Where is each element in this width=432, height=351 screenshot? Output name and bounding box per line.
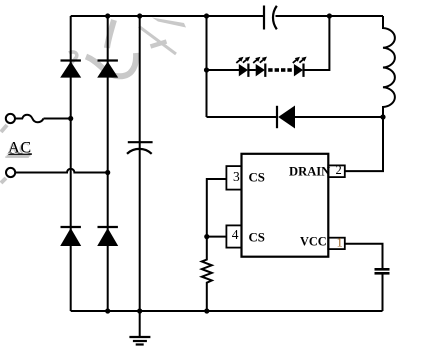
watermark J hook	[86, 53, 136, 76]
pin 3 box	[226, 166, 241, 190]
watermark stroke vertical bar	[107, 20, 114, 48]
diode D4 bridge bottom-right	[97, 227, 118, 246]
diode D3 bridge bottom-left	[60, 227, 81, 246]
wire freewheel diode row	[207, 116, 278, 118]
capacitor C1 curved plate	[273, 6, 277, 30]
diode D5 freewheel	[277, 106, 295, 129]
watermark tick left edge	[1, 125, 7, 132]
node top bus / LED right riser	[327, 13, 332, 18]
capacitor C2 bulk (flat plate)	[128, 141, 153, 143]
wire capacitor column	[139, 16, 141, 311]
wire left column	[70, 16, 72, 311]
node LED row left	[204, 67, 209, 72]
svg-text:VCC: VCC	[300, 235, 327, 249]
ground	[129, 311, 150, 345]
node top bus / column3	[137, 13, 142, 18]
wire top bus	[71, 15, 264, 17]
node CS sense	[204, 234, 209, 239]
node bottom bus / ground	[137, 308, 142, 313]
AC terminal top	[6, 114, 15, 123]
svg-text:2: 2	[336, 163, 342, 177]
AC terminal bottom	[6, 168, 15, 177]
wire LED branch vertical	[206, 16, 208, 117]
wire C3 to bottom bus	[382, 274, 384, 311]
svg-text:AC: AC	[8, 139, 32, 156]
LED LED3	[293, 57, 307, 77]
wire bottom bus	[71, 310, 383, 312]
svg-text:3: 3	[233, 169, 240, 184]
wire CS pin3 to sense node	[207, 179, 226, 237]
wire diode row right	[295, 116, 383, 118]
LED LED1	[236, 57, 250, 77]
capacitor C3 vcc (top plate)	[375, 268, 390, 271]
wire drain riser	[345, 117, 383, 171]
node AC top	[68, 116, 73, 121]
wire LED row	[207, 69, 240, 71]
watermark stroke T-shape diagonal	[139, 18, 186, 55]
LED LED2	[253, 57, 267, 77]
fuse F1 squiggle	[15, 115, 44, 123]
wire AC top lead	[44, 118, 71, 120]
wire LED1-LED2	[248, 69, 256, 71]
svg-text:CS: CS	[249, 230, 265, 244]
resistor R1	[202, 237, 212, 311]
node diode row / inductor	[380, 114, 385, 119]
svg-text:1: 1	[337, 236, 343, 250]
svg-text:CS: CS	[249, 170, 265, 184]
wire top bus right of capacitor	[276, 15, 384, 17]
wire LED3 to right riser	[304, 16, 330, 70]
diode D1 bridge top-left	[60, 61, 81, 78]
pin 1 box	[328, 238, 345, 249]
capacitor C1 top series (flat plate)	[263, 6, 265, 30]
wire AC bottom lead with hop	[15, 169, 108, 173]
node bottom bus / resistor	[204, 308, 209, 313]
pin 2 box	[328, 165, 345, 177]
svg-text:4: 4	[232, 227, 239, 242]
wire CS pin4 lead	[207, 236, 226, 238]
node bottom bus / column2	[105, 308, 110, 313]
watermark small hook	[69, 52, 77, 63]
pin 4 box	[226, 225, 241, 247]
capacitor C2 curved plate	[127, 149, 152, 154]
capacitor C3 vcc (bottom plate)	[375, 272, 390, 275]
node top bus / column2	[105, 13, 110, 18]
diode D2 bridge top-right	[97, 61, 118, 78]
dashed continuation of LED string	[268, 68, 292, 72]
watermark tick bottom-left	[1, 178, 6, 183]
inductor L1	[383, 16, 395, 117]
wire VCC lead	[345, 244, 383, 269]
svg-text:DRAIN: DRAIN	[289, 164, 330, 178]
wire second column	[107, 16, 109, 311]
node top bus / LED branch	[204, 13, 209, 18]
node AC bottom	[105, 170, 110, 175]
op-amp U1 body	[242, 154, 329, 257]
